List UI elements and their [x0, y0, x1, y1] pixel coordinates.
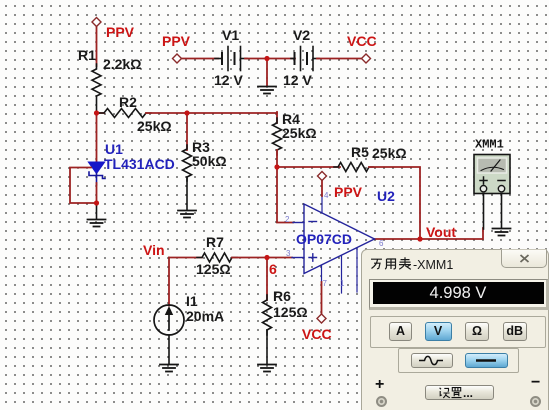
junction node batteries	[264, 56, 269, 61]
svg-text:XMM1: XMM1	[475, 138, 504, 152]
button DC	[465, 353, 508, 368]
wire Vin vertical	[168, 258, 170, 306]
wire U1 ref loop	[70, 168, 97, 204]
svg-text:U2: U2	[377, 188, 395, 204]
ground under I1	[160, 365, 178, 372]
wire R5 to Vout node	[369, 167, 420, 239]
svg-text:7: 7	[323, 279, 328, 288]
svg-text:Vout: Vout	[426, 224, 456, 240]
op-amp U2 OP07CD	[292, 194, 375, 293]
ground under R3	[178, 211, 196, 218]
wire PPV to R1	[96, 27, 98, 67]
svg-text:U1: U1	[105, 141, 123, 157]
svg-text:R7: R7	[206, 234, 224, 250]
button A	[389, 322, 412, 341]
svg-text:TL431ACD: TL431ACD	[104, 156, 175, 172]
battery V2	[291, 47, 319, 71]
group box 2	[398, 348, 519, 373]
wire PPV to V1	[182, 58, 218, 60]
svg-text:PPV: PPV	[162, 33, 191, 49]
svg-text:25kΩ: 25kΩ	[372, 145, 407, 161]
wire R2 left	[97, 112, 105, 114]
close button	[501, 249, 547, 268]
junction node U1	[94, 200, 99, 205]
resistor R5	[334, 163, 373, 172]
svg-text:2: 2	[285, 215, 290, 224]
svg-text:125Ω: 125Ω	[196, 261, 231, 277]
svg-text:V1: V1	[222, 27, 239, 43]
svg-text:25kΩ: 25kΩ	[137, 118, 172, 134]
junction node R1-R2	[94, 110, 99, 115]
wire node to R5	[277, 166, 340, 168]
wire node to ground	[96, 203, 98, 219]
wire R4 top	[276, 112, 278, 123]
resistor R3	[183, 145, 192, 181]
svg-text:12 V: 12 V	[214, 72, 243, 88]
wire R4 bottom to node	[276, 150, 278, 167]
resistor R1	[92, 64, 101, 113]
wire feedback down to pin2	[277, 167, 293, 223]
net connector PPV top	[92, 18, 101, 27]
wire R6 top	[266, 258, 268, 301]
wire R3 to ground	[186, 177, 188, 210]
resistor R7	[197, 253, 237, 262]
net connector VCC battery	[362, 54, 371, 63]
button AC	[411, 353, 454, 368]
wire R7 to node 6	[232, 257, 267, 259]
junction node Vout	[417, 236, 422, 241]
settings button	[425, 385, 494, 400]
net connector PPV pin4	[318, 172, 327, 181]
svg-text:R1: R1	[78, 47, 96, 63]
resistor R2	[99, 109, 151, 118]
wire R3 top	[186, 113, 188, 150]
wire V1 to junction to V2	[245, 58, 295, 60]
wire XMM1 right to ground	[501, 194, 503, 229]
wire pin7 to VCC	[321, 282, 323, 314]
wire XMM1 left stub	[483, 194, 485, 230]
junction node R4-R5	[274, 164, 279, 169]
svg-text:PPV: PPV	[334, 184, 363, 200]
instrument XMM1	[474, 155, 510, 194]
svg-text:2.2kΩ: 2.2kΩ	[103, 56, 141, 72]
resistor R6	[263, 295, 272, 335]
svg-text:4: 4	[324, 191, 329, 200]
net connector PPV battery	[173, 54, 182, 63]
display	[369, 279, 549, 310]
wire V2 to VCC	[317, 58, 362, 60]
button V	[425, 322, 452, 341]
plus terminal label	[375, 376, 384, 394]
wire R2 to R4	[146, 112, 277, 114]
svg-text:OP07CD: OP07CD	[296, 231, 352, 247]
svg-text:Vin: Vin	[143, 242, 165, 258]
wire pin4 to PPV	[321, 181, 323, 196]
wire Vin to R7	[169, 257, 202, 259]
wire junction to ground	[266, 59, 268, 87]
wire I1 to ground	[168, 335, 170, 364]
button Ohm	[465, 322, 489, 341]
plus terminal jack	[376, 396, 387, 407]
svg-text:25kΩ: 25kΩ	[282, 125, 317, 141]
ground under XMM1	[493, 229, 511, 236]
minus terminal jack	[530, 396, 541, 407]
svg-text:50kΩ: 50kΩ	[192, 153, 227, 169]
svg-text:V2: V2	[293, 27, 310, 43]
wire node 6 to pin3	[267, 257, 292, 259]
svg-text:I1: I1	[186, 293, 198, 309]
multimeter dialog window	[361, 249, 549, 410]
resistor R4	[273, 118, 282, 155]
wire op-amp output to Vout and XMM1	[374, 228, 483, 239]
button dB	[503, 322, 528, 341]
svg-text:1: 1	[340, 279, 345, 288]
wire R6 to ground	[266, 330, 268, 364]
wire U1 cathode to node	[96, 183, 98, 203]
svg-text:125Ω: 125Ω	[273, 304, 308, 320]
ground under R6	[258, 365, 276, 372]
ground under batteries	[258, 87, 276, 94]
svg-text:R6: R6	[273, 288, 291, 304]
svg-text:20mA: 20mA	[186, 308, 224, 324]
net connector VCC pin7	[317, 314, 326, 323]
svg-text:VCC: VCC	[347, 33, 377, 49]
svg-text:R5: R5	[351, 144, 369, 160]
battery V1	[215, 47, 247, 71]
svg-text:3: 3	[286, 249, 291, 258]
svg-text:...: ...	[463, 386, 473, 399]
wire R2 node down to U1	[96, 113, 98, 162]
svg-text:PPV: PPV	[106, 24, 135, 40]
current source I1	[154, 305, 184, 335]
junction node R3	[184, 110, 189, 115]
svg-text:VCC: VCC	[302, 326, 332, 342]
svg-text:6: 6	[269, 261, 277, 277]
minus terminal label	[531, 374, 540, 392]
group box 1	[370, 316, 546, 348]
svg-text:12 V: 12 V	[283, 72, 312, 88]
junction node 6	[264, 255, 269, 260]
shunt regulator U1 TL431ACD	[88, 162, 105, 185]
svg-text:R2: R2	[119, 94, 137, 110]
title bar text	[370, 256, 500, 272]
svg-text:-XMM1: -XMM1	[413, 258, 453, 272]
svg-text:6: 6	[379, 239, 384, 248]
ground under U1	[88, 220, 106, 227]
